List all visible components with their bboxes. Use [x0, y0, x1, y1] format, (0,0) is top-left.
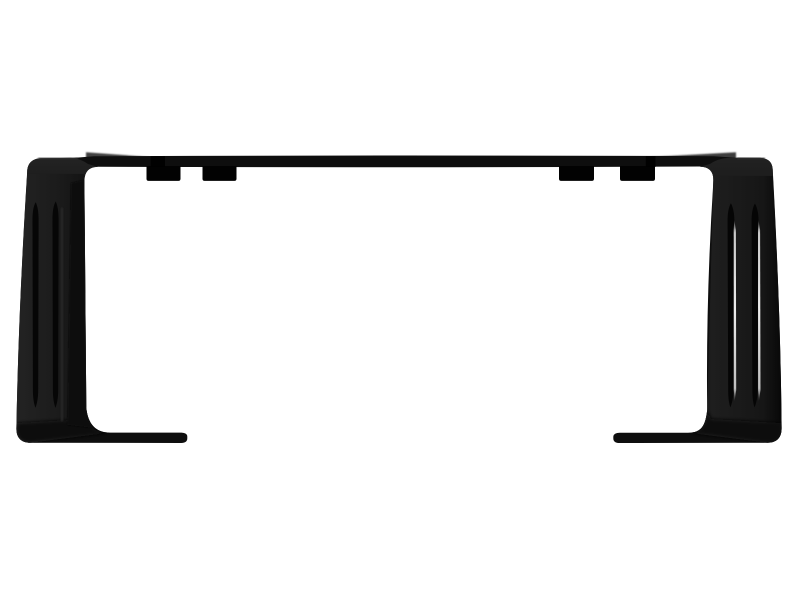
right slot 2 dark [752, 204, 759, 408]
hook tab left 2 [203, 166, 237, 181]
right leg bottom shade [688, 368, 782, 443]
left leg slot 2 [53, 202, 59, 408]
right slot 1 light gap [734, 220, 737, 401]
left inner side face [68, 180, 94, 428]
right slot 1 dark [728, 203, 735, 407]
left corner cap [26, 158, 98, 200]
top face glare right [650, 152, 736, 160]
left leg bottom shade [16, 419, 110, 443]
right slot 2 light gap [758, 220, 761, 401]
top face glare left [86, 152, 150, 160]
right cap top highlight [737, 158, 765, 159]
bracket silhouette [16, 156, 781, 443]
right leg front face [688, 176, 782, 443]
right corner cap [700, 158, 774, 202]
rear tab right [646, 156, 656, 167]
rear tab left [151, 156, 166, 167]
left leg edge highlight [61, 208, 63, 421]
left leg slot 1 [33, 202, 39, 407]
hook tab left 1 [147, 166, 181, 181]
hook tab right 1 [559, 166, 594, 181]
hook tab right 2 [620, 166, 655, 181]
left cap top highlight [38, 158, 78, 159]
left leg front face [16, 174, 110, 443]
